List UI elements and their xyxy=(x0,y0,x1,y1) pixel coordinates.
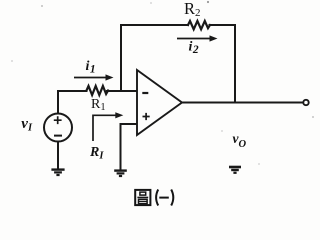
svg-text:i1: i1 xyxy=(86,59,96,76)
svg-text:vO: vO xyxy=(233,131,247,150)
svg-text:R2: R2 xyxy=(184,0,201,19)
svg-text:vI: vI xyxy=(21,116,33,134)
svg-text:i2: i2 xyxy=(189,40,199,56)
svg-text:R1: R1 xyxy=(91,97,106,113)
svg-text:RI: RI xyxy=(89,145,104,161)
